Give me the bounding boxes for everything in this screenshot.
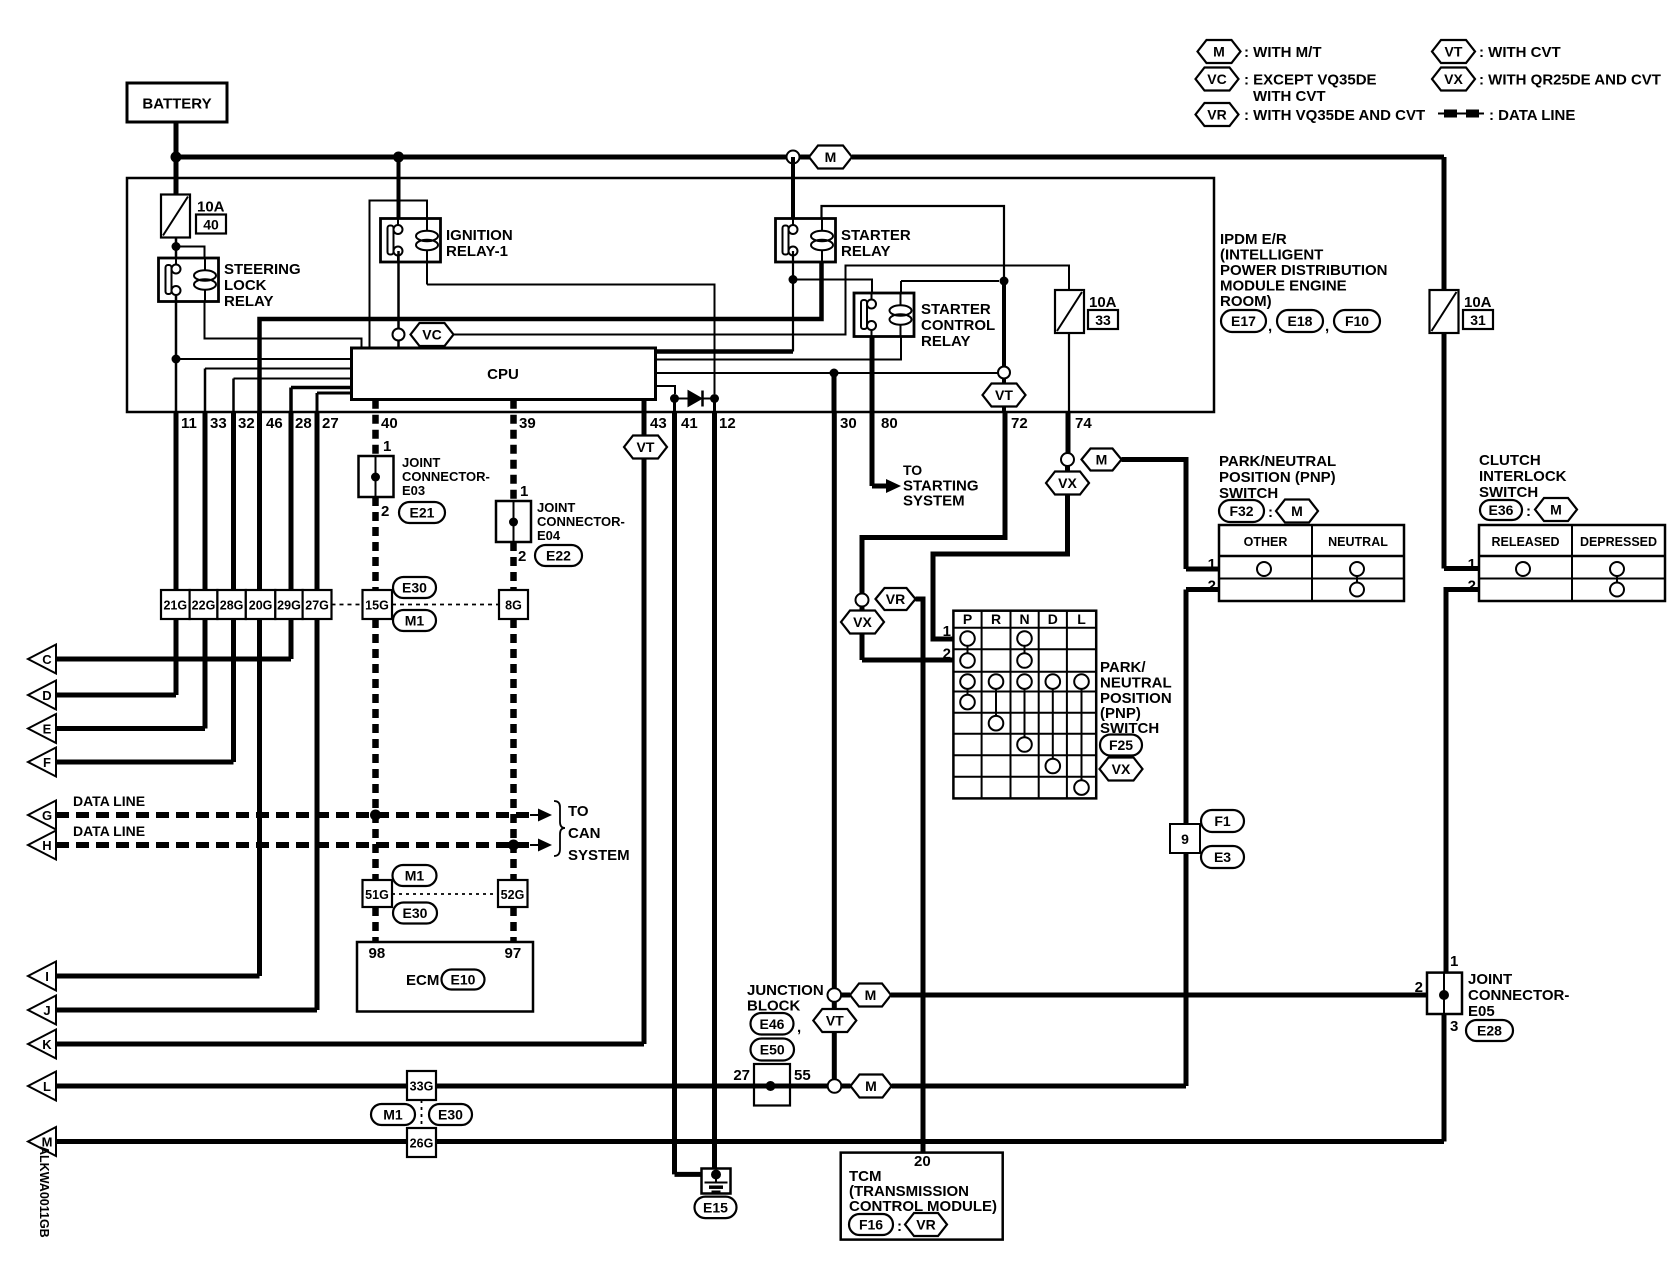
connector E46: [751, 1013, 794, 1035]
starter relay STR: [776, 219, 836, 263]
terminal 26G: [407, 1128, 436, 1157]
wire pin 40 dashed lower: [372, 619, 379, 880]
svg-text:M: M: [1550, 502, 1562, 518]
svg-text:JOINT: JOINT: [402, 455, 440, 470]
svg-text:M1: M1: [383, 1107, 403, 1123]
svg-text:VR: VR: [1207, 107, 1226, 123]
link 33G-26G dotted: [421, 1100, 423, 1128]
svg-text:E30: E30: [403, 905, 428, 921]
svg-text:1: 1: [383, 438, 391, 455]
tag VR TCM: [905, 1213, 947, 1236]
svg-text:30: 30: [840, 415, 857, 432]
label TO STARTING SYSTEM: [903, 462, 979, 510]
wire VR to TCM pin 20: [916, 599, 924, 1153]
wire VT tag to IPDM edge: [1002, 407, 1006, 413]
svg-text:PARK/: PARK/: [1100, 659, 1146, 676]
svg-text:POWER DISTRIBUTION: POWER DISTRIBUTION: [1220, 262, 1388, 279]
svg-text:WITH CVT: WITH CVT: [1253, 88, 1326, 105]
wire diode to pin 12 edge: [713, 399, 716, 413]
CPU box: [352, 348, 656, 400]
svg-text:RELAY: RELAY: [921, 333, 970, 350]
joint connector E05 box: [1427, 973, 1462, 1014]
terminal 29G: [275, 590, 302, 619]
node pin72 coil junction: [1000, 277, 1009, 286]
svg-text:33G: 33G: [410, 1080, 434, 1094]
svg-text:1: 1: [1450, 953, 1458, 970]
starter relay label: [841, 227, 911, 260]
wire VT to lower circle: [832, 1032, 837, 1079]
wire circle to M tag lower: [841, 1084, 850, 1089]
svg-text:CONNECTOR-: CONNECTOR-: [402, 469, 490, 484]
svg-text:2: 2: [381, 503, 389, 520]
tag M pin74: [1082, 449, 1122, 471]
wire pin 72 to VR circle: [862, 412, 1005, 594]
node E03: [371, 473, 380, 482]
link 51G-52G dotted: [392, 893, 498, 895]
svg-text:NEUTRAL: NEUTRAL: [1100, 675, 1172, 692]
svg-text:IPDM E/R: IPDM E/R: [1220, 231, 1287, 248]
wire pin 27 to J: [315, 412, 320, 1010]
wire clutch pin 2 to E05: [1446, 590, 1479, 973]
wire data line G tail: [530, 814, 538, 816]
connector 9 box: [1170, 824, 1200, 853]
svg-text:: WITH QR25DE AND CVT: : WITH QR25DE AND CVT: [1479, 72, 1661, 89]
svg-text:F16: F16: [859, 1217, 883, 1233]
terminal 28G: [217, 590, 245, 619]
svg-text:43: 43: [650, 415, 667, 432]
svg-text:VC: VC: [1207, 71, 1226, 87]
PNP grid contact circles: [960, 631, 975, 646]
svg-text:LOCK: LOCK: [224, 277, 267, 294]
wire battery to bus: [174, 122, 179, 157]
connector F1: [1201, 810, 1244, 832]
svg-text:E21: E21: [410, 505, 435, 521]
connector circle VC: [393, 329, 405, 341]
wire E05 pin 3 to M line: [1442, 1014, 1447, 1142]
wire J line: [56, 1008, 317, 1013]
wire ignition contact to VC circle: [397, 251, 400, 328]
bus wire battery feed left: [176, 155, 789, 160]
wire pin33 vertical: [204, 369, 207, 413]
link 27G-15G dotted: [332, 604, 363, 606]
svg-text:VT: VT: [826, 1013, 844, 1029]
joint connector E03 box: [359, 456, 394, 497]
svg-text:15G: 15G: [365, 599, 389, 613]
svg-text:41: 41: [681, 415, 698, 432]
wire L line extension to F32: [892, 1084, 1187, 1089]
wire pin27 vertical: [316, 393, 319, 412]
svg-text::: :: [897, 1218, 902, 1235]
svg-text:G: G: [42, 808, 52, 823]
wire I line: [56, 974, 260, 979]
wire F32 pin2 down to L line: [1184, 590, 1189, 1087]
terminal 51G: [363, 880, 393, 907]
connector E30 above 15G: [393, 577, 436, 598]
svg-text:CAN: CAN: [568, 825, 601, 842]
svg-text:J: J: [43, 1003, 50, 1018]
svg-text:P: P: [963, 611, 972, 627]
svg-text:2: 2: [518, 548, 526, 565]
wire pin 32 to F: [231, 412, 236, 762]
connector circle pin74: [1061, 453, 1074, 466]
svg-text:11: 11: [181, 415, 197, 432]
svg-text:D: D: [42, 688, 51, 703]
link 15G-8G dotted: [392, 604, 499, 606]
wire pin72 line upper: [1002, 281, 1006, 367]
TCM box: [841, 1153, 1003, 1240]
wire VC circle to CPU top: [397, 341, 400, 349]
F32 state table: [1219, 525, 1404, 601]
svg-text:VX: VX: [853, 614, 872, 630]
svg-text:TO: TO: [568, 803, 589, 820]
svg-text:E10: E10: [451, 972, 476, 988]
arrow K: [28, 1030, 56, 1059]
wire node to starter control relay contact: [793, 280, 872, 300]
wire ignition coil top to CPU: [370, 201, 428, 349]
tag VT junction: [813, 1009, 856, 1032]
svg-text:1: 1: [1208, 556, 1216, 573]
svg-text:74: 74: [1075, 415, 1092, 432]
connector E50: [751, 1039, 795, 1061]
svg-text:33: 33: [1095, 312, 1111, 328]
tag M junction lower: [851, 1075, 892, 1098]
wire steering relay coil to CPU top: [205, 302, 362, 349]
svg-text:M: M: [1096, 452, 1108, 468]
ECM box: [357, 942, 533, 1012]
connector F25: [1100, 735, 1142, 756]
junction block label: [747, 982, 824, 1015]
node bus-fuse40: [171, 152, 182, 163]
svg-text:E18: E18: [1288, 313, 1313, 329]
arrow D: [28, 681, 56, 710]
wire ground stub: [715, 1175, 717, 1183]
diode D1: [688, 391, 703, 407]
svg-text:STARTER: STARTER: [921, 301, 991, 318]
svg-text:STEERING: STEERING: [224, 261, 301, 278]
svg-text:M: M: [865, 987, 877, 1003]
svg-text:(INTELLIGENT: (INTELLIGENT: [1220, 247, 1323, 264]
IPDM E/R enclosure box: [127, 178, 1214, 412]
svg-text:SYSTEM: SYSTEM: [568, 847, 630, 864]
steering lock relay SLR: [159, 258, 219, 302]
svg-text:32: 32: [238, 415, 255, 432]
node diode anode: [670, 394, 679, 403]
terminal 22G: [190, 590, 218, 619]
wire diode cathode lead: [703, 398, 715, 400]
wire VX to PNP grid pin 1: [933, 495, 1068, 640]
wire into clutch pin 1: [1444, 566, 1479, 571]
bus wire to fuse 31: [852, 155, 1444, 160]
connector circle bus M split: [787, 151, 800, 164]
legend tag VX: [1432, 68, 1475, 91]
svg-text:CONTROL: CONTROL: [921, 317, 995, 334]
node pin 30 branch: [830, 369, 839, 378]
wire branch to steering relay coil: [176, 247, 205, 259]
svg-text:F25: F25: [1109, 737, 1133, 753]
svg-text:80: 80: [881, 415, 898, 432]
terminal 21G: [161, 590, 190, 619]
terminal 20G: [246, 590, 275, 619]
svg-text:K: K: [42, 1037, 52, 1052]
wire M tag to E05 pin 2: [891, 993, 1427, 998]
arrow G: [28, 801, 56, 830]
joint connector E05 label: [1468, 971, 1569, 1020]
wire D line: [56, 693, 176, 698]
wire C line: [56, 657, 291, 662]
wire pin33 to CPU: [205, 368, 352, 370]
svg-text:20: 20: [914, 1153, 931, 1170]
svg-text:VR: VR: [916, 1217, 935, 1233]
wire F line: [56, 760, 234, 765]
arrowhead G to CAN: [538, 809, 552, 822]
svg-text:NEUTRAL: NEUTRAL: [1328, 535, 1388, 549]
svg-text:46: 46: [266, 415, 283, 432]
connector E10: [442, 970, 485, 990]
svg-text:,: ,: [1268, 318, 1272, 335]
svg-text:E03: E03: [402, 483, 425, 498]
wire bus to ignition relay contact: [397, 157, 401, 219]
svg-text:VT: VT: [637, 439, 655, 455]
tag VX pin74: [1046, 472, 1089, 495]
wire bus circle to starter relay contact: [791, 157, 795, 219]
wire diode to pin 41 edge: [673, 399, 676, 413]
wire M line: [56, 1139, 1444, 1144]
svg-text:: WITH CVT: : WITH CVT: [1479, 44, 1561, 61]
node E05: [1439, 990, 1449, 1000]
arrow H: [28, 831, 56, 860]
svg-text:PARK/NEUTRAL: PARK/NEUTRAL: [1219, 453, 1336, 470]
node E04: [509, 518, 518, 527]
wire M to F32 pin 1: [1122, 460, 1187, 570]
wire L through junction block: [754, 1084, 790, 1089]
svg-text:VX: VX: [1444, 71, 1463, 87]
svg-text:E30: E30: [438, 1107, 463, 1123]
ground E15 box: [702, 1169, 731, 1194]
ignition relay-1 IGN: [381, 219, 441, 263]
svg-text:28: 28: [295, 415, 312, 432]
svg-text:22G: 22G: [192, 599, 216, 613]
svg-text:JOINT: JOINT: [1468, 971, 1512, 988]
svg-text:97: 97: [505, 945, 522, 962]
joint connector E04 box: [496, 501, 531, 542]
connector E22: [535, 545, 582, 566]
wire starter coil bottom to pin 46: [260, 262, 822, 412]
wire junction block to circle: [790, 1084, 828, 1089]
svg-text:51G: 51G: [365, 888, 389, 902]
connector F16: [849, 1214, 893, 1235]
svg-text:M1: M1: [405, 868, 425, 884]
fuse 31 10A: [1430, 290, 1494, 333]
wire pin 39 dashed lower: [510, 619, 517, 880]
wire CPU to starter contact: [656, 349, 794, 354]
fuse 33 10A: [1055, 290, 1118, 333]
wire data line G dashed: [56, 812, 532, 818]
park/neutral position switch grid: [953, 611, 1096, 799]
svg-text:DEPRESSED: DEPRESSED: [1580, 535, 1657, 549]
wire SCR coil top stub: [900, 281, 902, 293]
svg-text:,: ,: [1325, 318, 1329, 335]
wire fuse 31 to clutch pin 1: [1442, 333, 1447, 569]
legend tag VT: [1432, 40, 1475, 63]
wire steering relay contact to pin 11: [175, 295, 178, 413]
arrow J: [28, 996, 56, 1025]
wire pin 39 dashed upper: [510, 400, 517, 501]
wire pin 12 down to ground: [712, 412, 717, 1175]
wire E line: [56, 726, 205, 731]
tag VX F25: [1100, 758, 1143, 781]
tag VR: [876, 588, 916, 610]
svg-text:DATA LINE: DATA LINE: [73, 823, 145, 839]
wire pin 11 to D: [174, 412, 179, 695]
wire pin 43 upper: [642, 412, 647, 437]
svg-text:: WITH M/T: : WITH M/T: [1244, 44, 1321, 61]
legend tag M: [1198, 40, 1241, 63]
wire pin 39 dashed to ECM: [510, 907, 517, 942]
terminal 52G: [498, 880, 528, 907]
svg-text:L: L: [43, 1079, 51, 1094]
arrow F: [28, 748, 56, 777]
wire circle to VX pin74: [1065, 466, 1070, 472]
wire pin 80 to starting system: [872, 484, 886, 489]
connector E17: [1221, 310, 1266, 332]
PNP grid contact links: [967, 646, 969, 653]
wire pin 74 down: [1066, 412, 1071, 453]
tag M junction upper: [850, 984, 891, 1007]
connector E15: [695, 1197, 737, 1219]
svg-text:52G: 52G: [501, 888, 525, 902]
svg-text:39: 39: [519, 415, 536, 432]
svg-text:SWITCH: SWITCH: [1479, 484, 1538, 501]
node ground: [711, 1170, 721, 1180]
ground symbol E15: [705, 1183, 728, 1192]
wire pin28 vertical: [289, 388, 293, 413]
wire K line: [56, 1042, 644, 1047]
svg-text:D: D: [1048, 611, 1058, 627]
tag M F32: [1276, 500, 1318, 523]
terminal 8G: [499, 590, 528, 619]
svg-text:F: F: [43, 755, 51, 770]
svg-text:F32: F32: [1229, 503, 1253, 519]
svg-text:28G: 28G: [220, 599, 244, 613]
svg-text:20G: 20G: [249, 599, 273, 613]
wire through E03: [375, 456, 377, 497]
svg-text:IGNITION: IGNITION: [446, 227, 513, 244]
svg-text:10A: 10A: [1464, 294, 1492, 311]
svg-text:BATTERY: BATTERY: [142, 96, 211, 113]
joint connector E04 label: [537, 500, 625, 543]
connector E3: [1201, 846, 1244, 868]
wire through E05: [1443, 973, 1445, 1014]
svg-text:29G: 29G: [277, 599, 301, 613]
svg-text:POSITION (PNP): POSITION (PNP): [1219, 469, 1336, 486]
IPDM E/R title: [1220, 231, 1388, 310]
svg-text:INTERLOCK: INTERLOCK: [1479, 468, 1567, 485]
wire pin 40 dashed mid: [372, 497, 379, 590]
svg-text:STARTER: STARTER: [841, 227, 911, 244]
junction block box: [754, 1064, 790, 1106]
svg-text:M1: M1: [405, 613, 425, 629]
svg-text:VT: VT: [995, 387, 1013, 403]
tag VC: [411, 323, 454, 346]
connector M1 below 15G: [393, 610, 436, 631]
wire through E04: [513, 501, 515, 542]
svg-text:1: 1: [520, 483, 528, 500]
svg-text:1: 1: [943, 623, 951, 640]
svg-text:21G: 21G: [163, 599, 187, 613]
svg-text:L: L: [1077, 611, 1086, 627]
arrow C: [28, 645, 56, 674]
wire ignition coil bottom to pin 12: [427, 285, 715, 395]
svg-text:VR: VR: [886, 591, 905, 607]
wire pin28 to CPU: [291, 386, 352, 390]
wire into F32 pin 1: [1186, 567, 1219, 572]
arrowhead H to CAN: [538, 839, 552, 852]
svg-text:E15: E15: [703, 1199, 728, 1215]
node junction block: [766, 1081, 776, 1091]
svg-text:E3: E3: [1214, 849, 1231, 865]
svg-text:9: 9: [1181, 831, 1189, 847]
wire SCR coil to pin72 node: [901, 280, 999, 282]
connector E21: [399, 502, 445, 523]
svg-text:R: R: [991, 611, 1001, 627]
ignition relay-1 label: [446, 227, 513, 260]
node bus-ignition relay: [393, 152, 404, 163]
svg-text:E36: E36: [1489, 502, 1514, 518]
svg-text:VT: VT: [1445, 44, 1463, 60]
svg-text:DATA LINE: DATA LINE: [73, 793, 145, 809]
svg-text:RELAY: RELAY: [841, 243, 890, 260]
svg-text:TO: TO: [903, 462, 922, 478]
connector circle junction M: [828, 988, 842, 1002]
legend tag VC: [1196, 68, 1239, 91]
svg-text:2: 2: [943, 646, 951, 663]
svg-text:E: E: [43, 722, 52, 737]
tag M bus: [809, 146, 852, 169]
wire L line: [56, 1084, 754, 1089]
brace TO CAN SYSTEM: [554, 801, 565, 856]
joint connector E03 label: [402, 455, 490, 498]
svg-text:I: I: [45, 969, 49, 984]
clutch contacts: [1516, 562, 1530, 576]
terminal 15G: [363, 590, 393, 619]
wire bus down to fuse 31: [1442, 157, 1447, 290]
wire circle to VX tag: [860, 607, 865, 612]
arrowhead to starting system: [886, 479, 901, 493]
svg-text:MODULE ENGINE: MODULE ENGINE: [1220, 278, 1347, 295]
svg-text:72: 72: [1011, 415, 1028, 432]
svg-text:27G: 27G: [305, 599, 329, 613]
clutch interlock state table: [1479, 525, 1665, 601]
bus wire to M tag: [800, 155, 812, 160]
svg-text:31: 31: [1470, 312, 1486, 328]
svg-text:RELAY: RELAY: [224, 293, 273, 310]
wire pin 33 to E: [203, 412, 208, 729]
svg-text:: EXCEPT VQ35DE: : EXCEPT VQ35DE: [1244, 72, 1377, 89]
svg-text:E30: E30: [402, 580, 427, 596]
arrow E: [28, 714, 56, 743]
connector circle junction M lower: [828, 1079, 842, 1093]
wire CPU to VT circle: [656, 372, 999, 374]
wire starter contact bottom down: [792, 251, 794, 352]
svg-text:CLUTCH: CLUTCH: [1479, 452, 1541, 469]
svg-text:,: ,: [797, 1019, 801, 1036]
wire pin 30 down to junction circle: [832, 412, 837, 988]
wire pin11 node to CPU: [176, 358, 352, 360]
arrow M: [28, 1127, 56, 1156]
svg-text:: WITH VQ35DE AND CVT: : WITH VQ35DE AND CVT: [1244, 107, 1425, 124]
connector F10: [1334, 310, 1380, 332]
svg-text:ECM: ECM: [406, 972, 439, 989]
